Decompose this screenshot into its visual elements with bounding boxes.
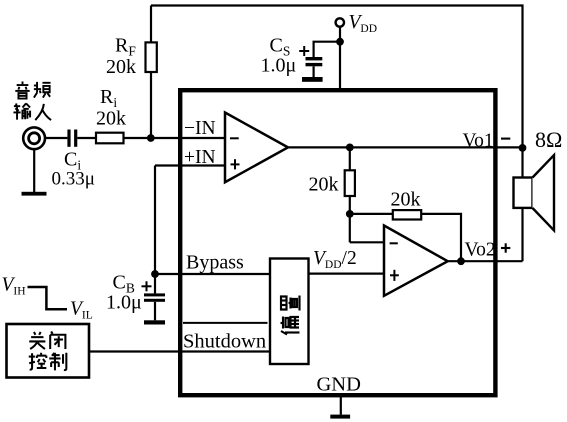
waveform step VIH to VIL xyxy=(28,287,68,309)
wire R3 to node2 and down to -in of U1B xyxy=(349,196,351,242)
label CS plus polarity xyxy=(299,46,309,56)
wire +IN horizontal xyxy=(155,164,225,166)
wire to -in of U1B xyxy=(350,241,384,243)
wire Ri to -IN of op-amp U1A xyxy=(124,137,226,139)
resistor R3 20k vertical xyxy=(345,170,355,196)
capacitor Ci xyxy=(67,130,70,147)
svg-text:20k: 20k xyxy=(391,189,421,211)
overline Shutdown xyxy=(183,322,268,324)
wire Vo1 node down to speaker xyxy=(521,148,523,178)
wire RF top stem xyxy=(150,6,152,43)
svg-text:1.0μ: 1.0μ xyxy=(106,292,142,314)
capacitor CS plates xyxy=(306,57,323,60)
wire CS to ground xyxy=(313,66,315,77)
node input junction xyxy=(147,134,155,142)
resistor R4 20k horizontal xyxy=(393,210,421,219)
label Vo2 plus polarity xyxy=(501,243,510,252)
node op-amp1 output xyxy=(346,144,354,152)
wire bypass node into IC xyxy=(155,273,270,275)
speaker LS1 8ohm xyxy=(514,178,533,208)
svg-text:8Ω: 8Ω xyxy=(535,127,562,152)
label 音频输入 audio input xyxy=(13,81,51,120)
wire +IN vertical down to bypass node xyxy=(154,166,156,275)
ground under CB xyxy=(144,320,165,324)
wire VDD down into IC xyxy=(339,27,341,90)
capacitor CB plates xyxy=(144,293,165,296)
wire top feedback from RF to Vo1 xyxy=(151,6,523,148)
svg-text:Vo1: Vo1 xyxy=(463,130,494,151)
resistor Ri xyxy=(96,133,124,144)
svg-text:20k: 20k xyxy=(106,56,136,78)
node Vo2 xyxy=(457,257,465,265)
wire Ci to Ri xyxy=(77,137,96,139)
label Vo1 minus polarity xyxy=(501,138,510,140)
wire RCA ground stem xyxy=(33,148,35,193)
node VDD junction xyxy=(336,38,344,46)
svg-text:0.33μ: 0.33μ xyxy=(52,169,95,190)
IC amplifier block U1 outline xyxy=(180,90,495,395)
ground under CS xyxy=(302,77,323,82)
op-amp U1A xyxy=(225,113,288,183)
op-amp U1A minus mark xyxy=(230,137,239,139)
svg-text:GND: GND xyxy=(317,373,361,395)
ground under RCA jack xyxy=(22,192,47,196)
svg-text:+IN: +IN xyxy=(184,147,216,168)
op-amp U1B xyxy=(384,226,448,296)
svg-text:Shutdown: Shutdown xyxy=(183,331,266,353)
wire speaker bottom to Vo2 line xyxy=(521,208,523,261)
node Vo1 speaker junction xyxy=(519,144,527,152)
svg-text:Bypass: Bypass xyxy=(186,252,244,274)
wire down to R3 xyxy=(349,147,351,170)
wire RF bottom stem to input node xyxy=(150,72,152,138)
terminal VDD open circle xyxy=(336,18,344,26)
label 关闭控制 xyxy=(29,331,67,370)
wire GND stem xyxy=(340,396,342,415)
wire op-amp U1A output to Vo1 node xyxy=(288,146,523,148)
label CB plus polarity xyxy=(142,281,152,291)
wire node2 to R4 xyxy=(350,213,393,215)
connector J1 audio input RCA jack xyxy=(23,127,45,149)
node node2 xyxy=(346,210,354,218)
svg-text:1.0μ: 1.0μ xyxy=(261,55,297,77)
wire VDD node to CS xyxy=(314,42,340,57)
wire U1B output to speaker xyxy=(448,260,523,262)
op-amp U1B plus mark xyxy=(390,270,399,281)
svg-text:Vo2: Vo2 xyxy=(465,240,496,261)
op-amp U1B minus mark xyxy=(390,242,398,244)
svg-text:20k: 20k xyxy=(96,108,126,130)
block bias 偏置 xyxy=(270,259,309,365)
wire bypass node to CB xyxy=(154,274,156,293)
wire R4 to Vo2 node xyxy=(421,214,461,261)
node bypass junction xyxy=(151,270,159,278)
op-amp U1A plus mark xyxy=(231,159,240,169)
label 偏置 rotated xyxy=(281,296,300,335)
svg-text:20k: 20k xyxy=(309,173,339,195)
ground under IC xyxy=(330,415,350,419)
wire CB to ground xyxy=(154,302,156,321)
wire RCA to Ci xyxy=(45,137,68,139)
svg-text:−IN: −IN xyxy=(184,118,216,139)
wire shutdown from control box to bias xyxy=(89,350,270,352)
block shutdown control 关闭控制 xyxy=(7,324,90,378)
wire VDD/2 from bias to U1B plus input xyxy=(309,273,385,275)
resistor RF xyxy=(146,42,157,72)
